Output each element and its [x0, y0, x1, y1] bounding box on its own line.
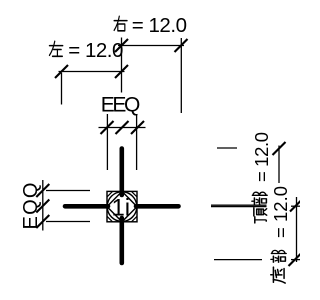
dimension D6 extension line middle stub right	[291, 205, 300, 207]
dimension D5 top label (rotated column)	[251, 132, 272, 223]
dimension D6 extension line middle	[211, 206, 267, 208]
dimension D6 extension line bottom stub right	[291, 259, 300, 261]
pad P1 corner hatch bottom-left	[107, 216, 113, 222]
CJK 部	[252, 192, 267, 204]
CJK 頂	[254, 208, 267, 223]
dimension D3 tick middle	[116, 121, 129, 134]
svg-text:EQQ: EQQ	[20, 183, 42, 230]
wire arm bottom	[120, 218, 125, 263]
dimension D6 bottom label (rotated column)	[270, 186, 291, 283]
dimension D2 tick right	[115, 65, 128, 78]
dimension D4 line	[42, 180, 44, 231]
svg-text:= 12.0: = 12.0	[68, 39, 123, 62]
dimension D4 extension line bottom	[46, 221, 90, 223]
pad P1 corner hatch top-right	[132, 191, 138, 197]
wire arm left	[65, 204, 108, 209]
pad P1 square outline	[107, 191, 137, 221]
svg-text:= 12.0: = 12.0	[132, 14, 187, 37]
wire arm right	[136, 204, 179, 209]
dimension D1 tick right	[175, 39, 188, 52]
dimension D5 tick top	[273, 142, 286, 155]
dimension D6 tick bottom	[289, 253, 302, 266]
dimension D4 tick top	[36, 184, 49, 197]
pad P1 corner hatch bottom-right	[132, 216, 138, 222]
svg-text:= 12.0: = 12.0	[251, 132, 272, 182]
pad P1 inscribed circle	[107, 192, 137, 222]
svg-text:EEQ: EEQ	[101, 93, 141, 116]
dimension D5 extension line bottom	[211, 204, 267, 206]
dimension D1 CJK 右	[114, 16, 127, 31]
wire arm top	[120, 149, 125, 196]
dimension D2 tick left	[55, 65, 68, 78]
dimension D6 extension line bottom	[214, 259, 262, 261]
dimension D4 tick bottom	[36, 215, 49, 228]
CJK 底	[271, 267, 285, 283]
pad P1 inscribed diamond	[107, 191, 137, 221]
dimension D1 tick left	[115, 39, 128, 52]
dimension D4 extension line top	[46, 190, 90, 192]
dimension D4 tick middle	[36, 200, 49, 213]
dimension D3 extension line right	[136, 114, 138, 170]
dimension D2 extension line left	[61, 73, 63, 105]
dimension D1 extension line right	[180, 38, 182, 113]
dimension D1 line	[118, 45, 184, 47]
dimension D3 extension line left	[106, 114, 108, 170]
dimension D5 line	[278, 146, 280, 184]
dimension D1 extension line left	[121, 38, 123, 93]
dimension D5 extension line top	[217, 147, 237, 149]
svg-text:= 12.0: = 12.0	[270, 186, 291, 238]
dimension D2 line	[59, 71, 125, 73]
dimension D6 tick top	[290, 199, 303, 212]
CJK 部	[271, 250, 286, 262]
dimension D2 CJK 左	[49, 41, 62, 56]
pad P1 corner hatch top-left	[107, 191, 113, 197]
dimension D3 line	[99, 127, 146, 129]
dimension D3 tick left	[101, 121, 114, 134]
dimension D3 tick right	[131, 121, 144, 134]
dimension D6 line	[296, 197, 298, 262]
